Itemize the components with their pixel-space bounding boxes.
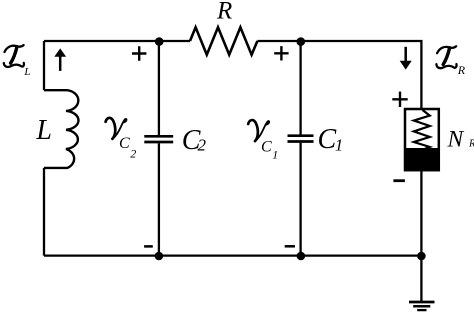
wire top-left segment node2 [44, 40, 190, 42]
resistor R [190, 0, 257, 55]
svg-text:L: L [35, 115, 52, 146]
current arrow IL [54, 48, 66, 71]
svg-text:1: 1 [335, 136, 344, 155]
capacitor C2 [144, 41, 206, 256]
label IR script [436, 46, 465, 77]
wire node1 to right branch top [301, 41, 422, 109]
svg-text:R: R [457, 63, 466, 77]
node dot top C2 [155, 37, 164, 46]
svg-text:L: L [23, 66, 30, 78]
current arrow IR [400, 47, 412, 70]
svg-text:2: 2 [198, 136, 207, 155]
ground [409, 302, 435, 310]
svg-text:R: R [216, 0, 232, 25]
minus sign NR [393, 179, 405, 182]
capacitor C1 [288, 41, 344, 256]
wire left vertical top [43, 41, 45, 90]
svg-text:2: 2 [130, 147, 136, 161]
wire bottom rail [44, 254, 422, 256]
svg-text:R: R [468, 139, 474, 150]
node dot top C1 [297, 37, 306, 46]
plus sign VC1 [274, 46, 288, 60]
inductor L [35, 90, 78, 168]
plus sign NR [392, 92, 407, 107]
node dot bottom C1 [297, 252, 306, 261]
plus sign VC2 [132, 46, 146, 60]
nonlinear resistor NR [404, 109, 474, 171]
svg-text:1: 1 [272, 148, 278, 162]
svg-text:C: C [261, 138, 272, 155]
svg-text:N: N [447, 126, 465, 152]
node dot bottom right [417, 252, 426, 261]
node dot bottom C2 [155, 252, 164, 261]
wire to ground [420, 256, 422, 302]
label VC2 script [106, 118, 137, 161]
label IL script [4, 45, 31, 78]
wire left vertical bottom [43, 168, 45, 256]
wire resistor to node1 [257, 40, 300, 42]
wire right vertical below NR [420, 170, 422, 255]
svg-text:C: C [318, 124, 337, 155]
minus sign VC2 [144, 245, 153, 248]
minus sign VC1 [285, 245, 295, 248]
label VC1 script [248, 120, 278, 161]
svg-text:C: C [119, 135, 130, 152]
